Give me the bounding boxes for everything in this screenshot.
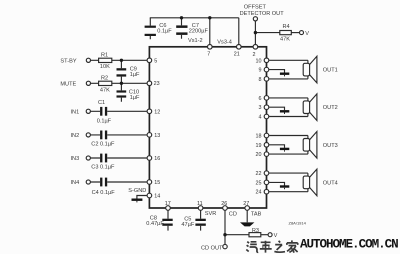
speaker OUT2: [303, 94, 317, 121]
svg-text:V: V: [305, 31, 309, 37]
svg-text:OUT4: OUT4: [323, 180, 338, 186]
svg-text:47K: 47K: [280, 37, 290, 43]
svg-text:0.1µF: 0.1µF: [157, 28, 172, 34]
svg-text:R1: R1: [101, 52, 108, 58]
svg-text:Vs3-4: Vs3-4: [217, 40, 232, 46]
node IN1 terminal: [86, 109, 90, 113]
svg-text:17: 17: [165, 201, 171, 207]
wire offset detector out: [255, 21, 279, 47]
svg-text:24: 24: [256, 190, 262, 196]
svg-text:47µF: 47µF: [181, 222, 194, 228]
svg-text:4: 4: [259, 115, 262, 121]
svg-text:16: 16: [154, 156, 160, 162]
svg-text:10K: 10K: [100, 64, 110, 70]
svg-text:R3: R3: [252, 228, 259, 234]
svg-text:23: 23: [154, 81, 160, 87]
speaker OUT3: [303, 132, 317, 159]
svg-text:8: 8: [259, 77, 262, 83]
wire top supply rail: [150, 18, 239, 46]
svg-text:12: 12: [154, 109, 160, 115]
speaker OUT4 wires: [269, 173, 308, 192]
wire OUT3 mid ground: [269, 145, 284, 148]
speaker OUT1: [303, 56, 317, 83]
capacitor C4: [100, 178, 107, 187]
ground OUT4: [280, 185, 289, 189]
node OFFSET terminal: [253, 17, 257, 21]
capacitor C10: [117, 83, 127, 102]
svg-text:R4: R4: [283, 24, 290, 30]
svg-text:OFFSET: OFFSET: [244, 4, 267, 10]
svg-text:S-GND: S-GND: [128, 188, 146, 194]
svg-text:11: 11: [197, 201, 203, 207]
node MUTE junction: [120, 82, 123, 85]
svg-text:Vs1-2: Vs1-2: [188, 38, 203, 44]
node IN2 terminal: [86, 133, 90, 137]
capacitor C1: [100, 107, 107, 116]
svg-text:9: 9: [259, 68, 262, 74]
wire IN1 row: [90, 110, 146, 112]
svg-text:2: 2: [253, 52, 256, 58]
terminal circles input side: [86, 17, 303, 249]
svg-text:CD OUT: CD OUT: [201, 246, 223, 252]
svg-text:22: 22: [256, 171, 262, 177]
resistor R2: [99, 81, 112, 85]
watermark 汽车之家 drawn strokes: [246, 240, 297, 252]
svg-text:IN2: IN2: [71, 133, 80, 139]
svg-text:C4 0.1µF: C4 0.1µF: [92, 190, 116, 196]
node V terminal top: [300, 31, 304, 35]
svg-text:V: V: [274, 233, 278, 239]
svg-text:CD: CD: [229, 211, 237, 217]
svg-text:20: 20: [256, 152, 262, 158]
svg-text:26: 26: [221, 201, 227, 207]
svg-text:7: 7: [207, 51, 210, 57]
svg-text:SVR: SVR: [205, 211, 217, 217]
capacitor C2: [100, 131, 107, 140]
speaker OUT3 wires: [269, 136, 308, 155]
wire MUTE row: [91, 82, 147, 84]
node V terminal bottom: [268, 233, 272, 237]
svg-text:25: 25: [256, 180, 262, 186]
svg-text:1µF: 1µF: [130, 95, 140, 101]
node IN4 terminal: [86, 180, 90, 184]
speaker OUT2 wires: [269, 98, 308, 117]
node CD OUT terminal: [223, 244, 227, 248]
svg-text:Z8A/1914: Z8A/1914: [289, 221, 307, 226]
wire OUT4 mid ground: [269, 182, 284, 185]
capacitor C5: [195, 208, 205, 231]
wire OUT2 mid ground: [269, 107, 284, 110]
svg-text:10: 10: [256, 58, 262, 64]
capacitor C8: [162, 208, 172, 231]
svg-text:0.1µF: 0.1µF: [97, 118, 112, 124]
wire R4 to V: [291, 32, 299, 34]
svg-text:TAB: TAB: [251, 211, 262, 217]
node CD junction: [223, 233, 226, 236]
IC pins left: [147, 58, 152, 198]
pin number labels: [154, 58, 161, 199]
svg-text:DETECTOR OUT: DETECTOR OUT: [240, 11, 285, 17]
svg-text:OUT1: OUT1: [323, 68, 338, 74]
wire IN4 row: [90, 181, 146, 183]
IC pins bottom: [166, 206, 250, 211]
wire R3 to V: [261, 234, 268, 236]
node IN3 terminal: [86, 156, 90, 160]
node supply rail junctions: [180, 16, 212, 19]
wire ST-BY row: [91, 59, 147, 61]
svg-text:ST-BY: ST-BY: [60, 58, 76, 64]
svg-text:18: 18: [256, 134, 262, 140]
capacitor C9: [117, 60, 127, 83]
svg-text:2200µF: 2200µF: [189, 28, 209, 34]
resistor R4: [280, 31, 292, 35]
speaker OUT1 wires: [269, 60, 308, 79]
node ST-BY terminal: [86, 58, 90, 62]
svg-text:3: 3: [259, 105, 262, 111]
svg-text:MUTE: MUTE: [60, 81, 76, 87]
wire CD to CD OUT: [225, 208, 249, 244]
svg-text:C2 0.1µF: C2 0.1µF: [91, 141, 115, 147]
svg-text:15: 15: [154, 180, 160, 186]
ground S-GND: [132, 199, 143, 203]
svg-text:6: 6: [259, 96, 262, 102]
svg-text:C1: C1: [98, 100, 105, 106]
svg-text:OUT2: OUT2: [323, 105, 338, 111]
wire IN2 row: [90, 134, 146, 136]
wire TAB to ground: [246, 208, 248, 222]
capacitor C3: [100, 154, 107, 163]
svg-text:13: 13: [154, 133, 160, 139]
svg-text:19: 19: [256, 143, 262, 149]
node offset junction: [254, 31, 257, 34]
svg-text:47K: 47K: [100, 87, 110, 93]
svg-text:27: 27: [243, 201, 249, 207]
svg-text:0.47µF: 0.47µF: [146, 221, 164, 227]
svg-text:21: 21: [234, 51, 240, 57]
svg-text:AUTOHOME.COM.CN: AUTOHOME.COM.CN: [300, 237, 398, 251]
node MUTE terminal: [86, 81, 90, 85]
svg-text:R2: R2: [101, 75, 108, 81]
svg-text:5: 5: [154, 58, 157, 64]
capacitor C7: [176, 18, 187, 39]
resistor R3: [249, 233, 261, 237]
op-amp U1 IC body: [149, 47, 266, 208]
svg-text:IN3: IN3: [71, 156, 80, 162]
IC pins right: [264, 58, 269, 194]
IC pins top: [208, 45, 258, 50]
svg-text:IN1: IN1: [71, 109, 80, 115]
svg-text:1µF: 1µF: [130, 72, 140, 78]
svg-text:OUT3: OUT3: [323, 143, 338, 149]
ground OUT2: [280, 110, 289, 114]
resistor R1: [99, 58, 112, 62]
capacitor C6: [145, 18, 156, 39]
ground OUT3: [280, 148, 289, 152]
wire IN3 row: [90, 157, 146, 159]
svg-text:IN4: IN4: [71, 180, 80, 186]
wire S-GND: [137, 196, 147, 199]
ground TAB: [240, 222, 254, 226]
svg-text:C3 0.1µF: C3 0.1µF: [91, 165, 115, 171]
svg-text:14: 14: [154, 194, 160, 200]
node ST-BY junction: [120, 59, 123, 62]
speaker OUT4: [303, 169, 317, 196]
wire OUT1 mid ground: [269, 70, 284, 73]
ground OUT1: [280, 73, 289, 77]
